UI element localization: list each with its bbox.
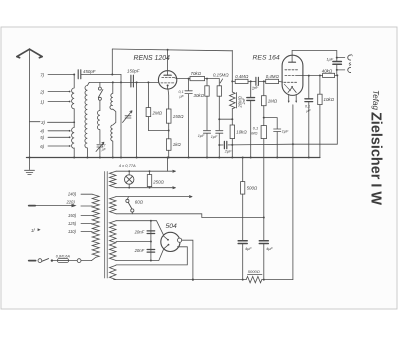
svg-text:150): 150) (68, 213, 77, 218)
svg-text:5000Ω: 5000Ω (248, 269, 260, 274)
lamp 4x0.77A (125, 175, 134, 184)
wire center tap (116, 241, 151, 243)
tap 125 (81, 223, 92, 225)
grid wire node row (89, 81, 158, 83)
terminal 5 (48, 136, 70, 138)
svg-text:Zielsicher I W: Zielsicher I W (368, 112, 385, 206)
main chassis bus (27, 157, 320, 159)
svg-text:150pF: 150pF (127, 69, 140, 74)
tube V3 504 envelope (161, 232, 180, 251)
svg-text:30kΩ: 30kΩ (194, 93, 205, 98)
output terminal upper (337, 57, 345, 59)
wire rectifier output (182, 240, 193, 279)
coil L4 (110, 82, 116, 157)
V2 filament (288, 87, 296, 92)
V3 anode marks (164, 236, 169, 249)
wire link (219, 118, 232, 120)
V1 screen grid (162, 77, 177, 80)
mains switch (38, 259, 42, 263)
svg-text:2nF: 2nF (242, 97, 246, 105)
V1 cathode (167, 85, 169, 87)
capacitor 20nF a (150, 221, 152, 261)
wire HT top (116, 221, 163, 235)
resistor 40k (323, 73, 335, 77)
terminal 6 (48, 145, 70, 147)
terminal 4 (48, 130, 70, 132)
svg-text:20nF: 20nF (134, 248, 145, 253)
mains autotransformer winding (92, 194, 100, 260)
svg-text:0,1: 0,1 (179, 90, 184, 94)
svg-text:1kΩ: 1kΩ (173, 142, 182, 147)
switch S1 (98, 82, 103, 110)
resistor 70k (190, 77, 205, 81)
svg-text:500Ω: 500Ω (247, 186, 258, 191)
wire screen to 40k (302, 75, 322, 77)
V2 heater pins (289, 95, 297, 102)
tube V2 RES164 envelope (282, 55, 303, 95)
winding W1 heater (110, 171, 117, 187)
wire trimmer line (136, 82, 138, 157)
resistor 20M zigzag (230, 92, 237, 109)
svg-text:2μF: 2μF (224, 148, 232, 153)
antenna A1 (17, 49, 42, 58)
svg-text:20nF: 20nF (134, 230, 145, 235)
svg-text:125): 125) (68, 221, 77, 226)
resistor 2M grid leak (147, 82, 149, 107)
wire B+ drop (231, 50, 233, 92)
V2 screen dashes (285, 69, 298, 71)
capacitor 2uF series (223, 141, 227, 148)
svg-text:150Ω: 150Ω (173, 114, 184, 119)
svg-text:1): 1) (40, 99, 44, 104)
svg-text:4μF: 4μF (266, 246, 273, 251)
capacitor 0.1uF screen (185, 79, 192, 158)
svg-text:5): 5) (40, 135, 44, 140)
svg-text:1μF: 1μF (282, 130, 289, 134)
svg-text:10kΩ: 10kΩ (236, 129, 247, 134)
svg-text:MΩ: MΩ (251, 131, 257, 136)
tap 240 (81, 193, 92, 195)
svg-text:7): 7) (40, 72, 44, 77)
transformer core (105, 172, 108, 279)
terminal 3 (30, 121, 75, 124)
svg-text:1MΩ: 1MΩ (268, 99, 278, 104)
resistor 10k b (319, 76, 321, 95)
resistor 0.4M b (266, 79, 279, 83)
output terminal lower (337, 69, 345, 71)
resistor 30k (206, 79, 208, 86)
capacitor 20nF b (147, 250, 155, 253)
svg-text:4 x 0,77A: 4 x 0,77A (119, 163, 136, 168)
resistor 1M (263, 81, 265, 95)
svg-text:70kΩ: 70kΩ (191, 71, 202, 76)
V1 anode (164, 74, 171, 76)
capacitor 2nF coupling (256, 77, 259, 85)
wire screen row (176, 78, 190, 80)
terminal 7 (48, 74, 74, 76)
V1 control grid (161, 82, 174, 84)
capacitor 1uF b (216, 131, 223, 158)
svg-text:110): 110) (68, 229, 77, 234)
svg-text:504: 504 (166, 223, 178, 230)
terminal 2 (48, 91, 70, 93)
squiggle between terminals (349, 62, 351, 65)
resistor 500 (242, 157, 244, 159)
V2 anode (289, 61, 296, 63)
wire heater bottom row (116, 187, 175, 189)
svg-text:0,4MΩ: 0,4MΩ (266, 74, 280, 79)
wire to top bus (111, 49, 113, 75)
svg-text:10kΩ: 10kΩ (324, 97, 335, 102)
capacitor 150pF grid (131, 75, 134, 87)
wire antenna down-lead (29, 50, 31, 158)
svg-text:60Ω: 60Ω (135, 200, 144, 205)
capacitor 4uF a (238, 241, 247, 244)
wire heater2 top row (116, 196, 192, 198)
wire rectifier filament return (116, 247, 187, 265)
HT+ rail (114, 279, 247, 281)
svg-text:0,15MΩ: 0,15MΩ (213, 73, 229, 78)
svg-text:RES 164: RES 164 (253, 55, 280, 62)
coil L1 antenna primary (72, 75, 75, 158)
resistor 0.4M a (232, 80, 235, 82)
svg-text:250Ω: 250Ω (152, 179, 164, 184)
node bus-antenna (29, 157, 31, 159)
rheostat 60 (127, 197, 128, 200)
svg-text:0,8/0,6A: 0,8/0,6A (56, 255, 71, 259)
wire heater2 bottom row (116, 214, 264, 218)
capacitor 1uF output (333, 62, 342, 65)
capacitor 0.1uF out (308, 76, 310, 99)
wire 450pF junction down (120, 75, 122, 158)
resistor 10k a (230, 125, 234, 139)
svg-text:450pF: 450pF (83, 69, 96, 74)
resistor 5000 field coil (246, 276, 262, 282)
svg-text:2): 2) (39, 89, 44, 94)
resistor 0.1M (263, 118, 265, 126)
coil L2 secondary (85, 82, 89, 157)
capacitor 450pF (78, 70, 81, 79)
wire HT bottom (116, 249, 164, 261)
winding W4 rectifier heater (110, 265, 117, 279)
mains plug lead (29, 260, 36, 262)
svg-text:240): 240) (67, 191, 77, 196)
tap 220 mains arrow (29, 205, 35, 207)
tube V1 RENS1204 envelope (158, 71, 176, 89)
ground (25, 158, 35, 175)
capacitor 1uF a (203, 131, 210, 158)
svg-text:4μF: 4μF (245, 246, 252, 251)
svg-text:40kΩ: 40kΩ (322, 69, 333, 74)
V2 grid dashes (284, 81, 297, 83)
wire V2 cathode return (292, 105, 294, 280)
wire output return (219, 75, 337, 145)
svg-text:1μF: 1μF (211, 135, 218, 139)
svg-text:6): 6) (40, 144, 44, 149)
svg-text:0,1: 0,1 (305, 104, 310, 108)
svg-text:Tefag: Tefag (371, 90, 380, 111)
svg-text:1μF: 1μF (198, 134, 205, 138)
svg-text:0,4MΩ: 0,4MΩ (235, 74, 249, 79)
resistor 150 (166, 109, 171, 123)
wire heater top row (116, 170, 175, 172)
svg-text:μF: μF (179, 95, 185, 99)
mark 1f (38, 228, 41, 231)
svg-text:3): 3) (41, 120, 45, 125)
tap 110 (81, 231, 92, 233)
resistor 0.15M (219, 79, 222, 86)
resistor 250 (149, 171, 151, 174)
svg-text:1μF: 1μF (326, 56, 333, 61)
capacitor 1uF c (264, 118, 281, 158)
resistor 1k (166, 139, 171, 151)
svg-text:220): 220) (66, 200, 76, 205)
trimmer capacitor T1 (125, 116, 131, 118)
V3 filament pin (178, 238, 182, 242)
trimmer capacitor 17uF (97, 145, 103, 158)
winding W3 HT (110, 221, 117, 261)
coil L3 (97, 111, 99, 144)
svg-text:RENS 1204: RENS 1204 (134, 55, 171, 62)
V2 anode top wire (292, 51, 337, 58)
winding W2 heater2 (110, 197, 117, 214)
terminal 1 (48, 101, 70, 103)
svg-text:2MΩ: 2MΩ (152, 111, 163, 116)
svg-text:μF: μF (306, 109, 312, 113)
svg-text:4): 4) (40, 129, 44, 134)
fuse 0.8/0.6A (57, 259, 68, 263)
tap 150 (81, 215, 92, 217)
capacitor 4uF b (263, 218, 265, 241)
top B+ bus (112, 49, 232, 51)
capacitor 2nF bypass (247, 81, 255, 100)
